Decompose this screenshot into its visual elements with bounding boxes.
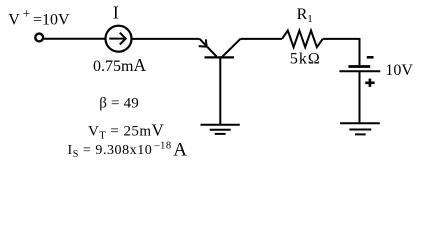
- svg-text:β = 49: β = 49: [99, 96, 139, 112]
- svg-text:V: V: [8, 12, 20, 29]
- svg-text:10V: 10V: [385, 62, 413, 79]
- svg-text:=10V: =10V: [33, 12, 70, 29]
- svg-text:I: I: [113, 2, 119, 22]
- svg-text:+: +: [23, 6, 30, 21]
- svg-text:5kΩ: 5kΩ: [290, 50, 321, 67]
- svg-text:0.75mA: 0.75mA: [93, 55, 146, 75]
